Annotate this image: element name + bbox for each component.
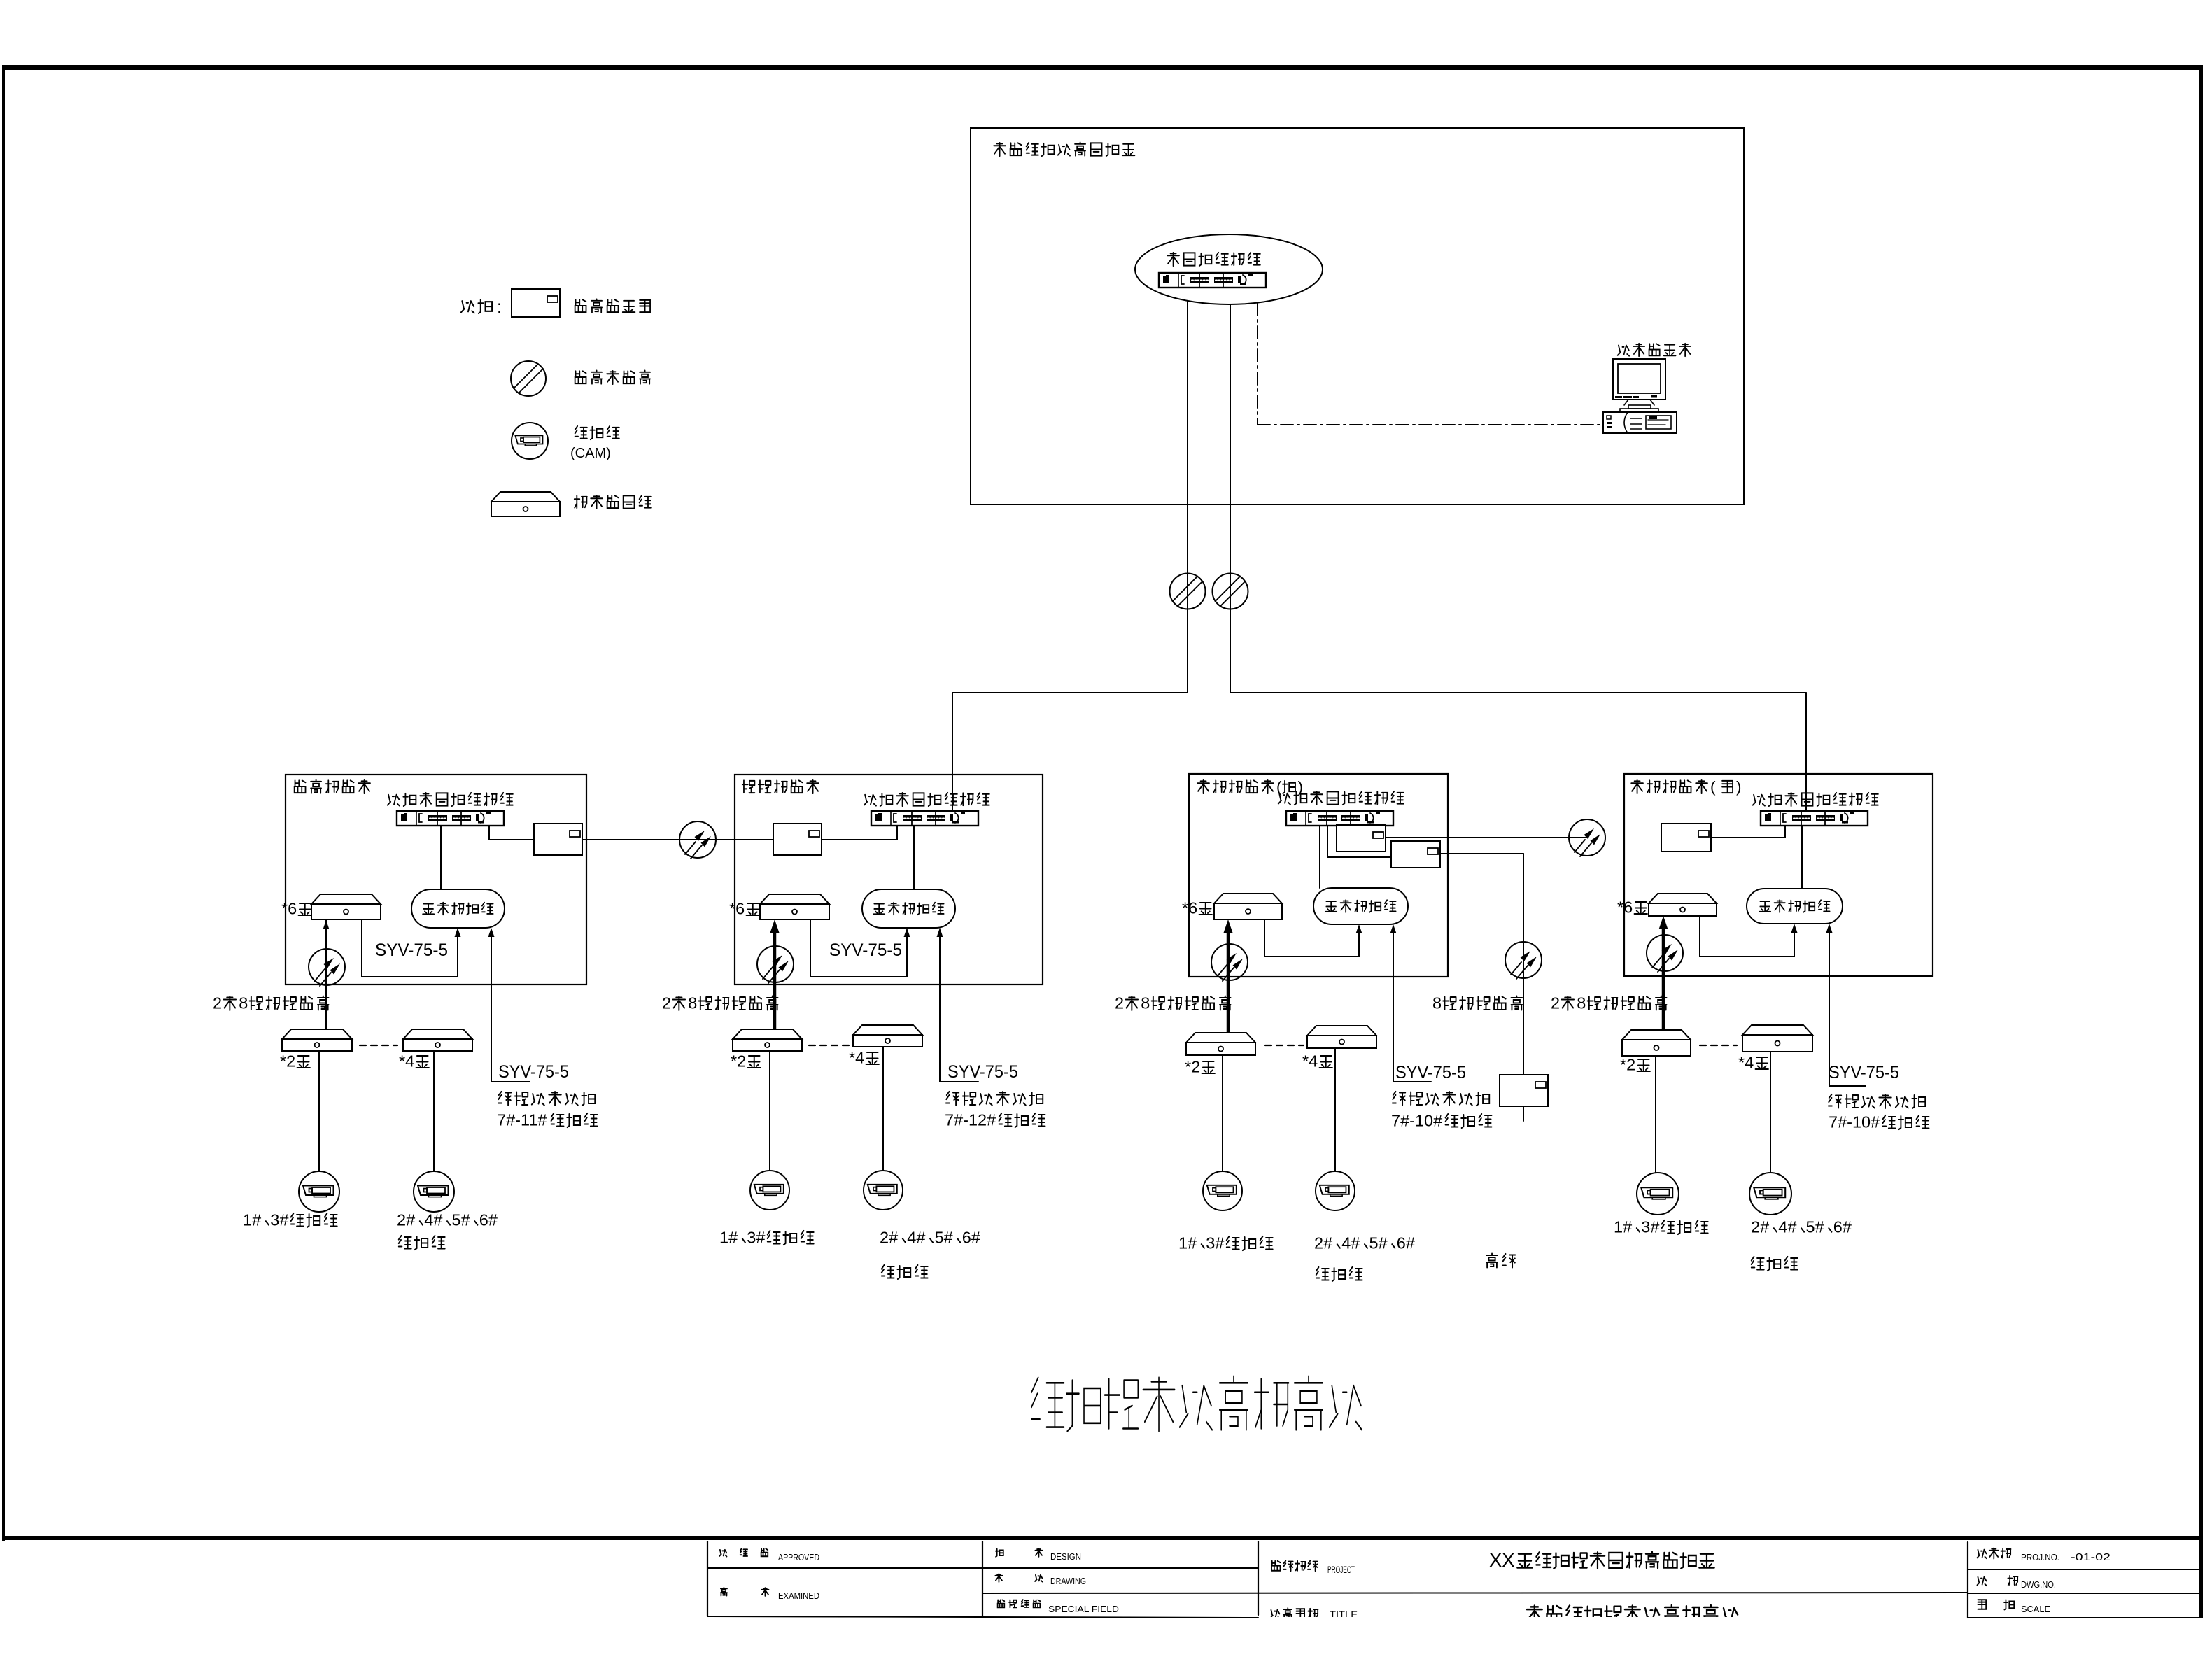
svg-text:-01-02: -01-02: [2071, 1551, 2111, 1563]
svg-text:*4: *4: [1302, 1052, 1318, 1071]
svg-text:5#: 5#: [935, 1229, 953, 1247]
svg-text:SYV-75-5: SYV-75-5: [829, 940, 902, 960]
svg-text:SYV-75-5: SYV-75-5: [498, 1062, 569, 1082]
svg-text:(: (: [1710, 778, 1716, 796]
svg-text:SYV-75-5: SYV-75-5: [1395, 1063, 1466, 1082]
svg-text:1#: 1#: [243, 1211, 261, 1229]
svg-text:4#: 4#: [1341, 1234, 1360, 1252]
svg-text:*2: *2: [280, 1052, 295, 1071]
svg-text::: :: [497, 297, 502, 317]
svg-text:8: 8: [1577, 994, 1586, 1012]
svg-text:): ): [1298, 778, 1304, 796]
svg-text:2: 2: [213, 994, 222, 1012]
svg-text:3#: 3#: [270, 1211, 288, 1229]
svg-text:PROJECT: PROJECT: [1327, 1564, 1355, 1575]
svg-text:PROJ.NO.: PROJ.NO.: [2021, 1552, 2059, 1562]
svg-text:8: 8: [239, 994, 248, 1012]
svg-text:EXAMINED: EXAMINED: [778, 1590, 819, 1601]
svg-text:1#: 1#: [719, 1229, 738, 1247]
svg-text:2#: 2#: [1751, 1218, 1769, 1236]
svg-text:*4: *4: [1738, 1054, 1754, 1072]
svg-text:SYV-75-5: SYV-75-5: [1829, 1063, 1899, 1082]
svg-text:3#: 3#: [1641, 1218, 1659, 1236]
svg-text:2: 2: [1551, 994, 1560, 1012]
svg-text:(CAM): (CAM): [570, 446, 611, 461]
svg-text:): ): [1736, 778, 1742, 796]
svg-text:SCALE: SCALE: [2021, 1604, 2050, 1614]
svg-text:2: 2: [1115, 994, 1124, 1012]
svg-text:5#: 5#: [1369, 1234, 1388, 1252]
svg-text:SPECIAL FIELD: SPECIAL FIELD: [1048, 1604, 1119, 1614]
svg-text:3#: 3#: [747, 1229, 765, 1247]
svg-text:6#: 6#: [962, 1229, 980, 1247]
svg-text:8: 8: [1432, 994, 1442, 1012]
svg-text:*2: *2: [1620, 1056, 1635, 1074]
svg-text:*6: *6: [1617, 898, 1633, 917]
svg-text:4#: 4#: [1778, 1218, 1796, 1236]
svg-text:*4: *4: [849, 1049, 864, 1067]
svg-text:2: 2: [662, 994, 671, 1012]
svg-text:DRAWING: DRAWING: [1050, 1576, 1086, 1586]
svg-text:XX: XX: [1489, 1549, 1515, 1571]
svg-text:1#: 1#: [1178, 1234, 1197, 1252]
svg-text:6#: 6#: [1833, 1218, 1852, 1236]
svg-text:*6: *6: [729, 900, 745, 918]
svg-text:7#-10#: 7#-10#: [1391, 1112, 1442, 1130]
svg-text:*6: *6: [281, 900, 297, 918]
svg-text:3#: 3#: [1206, 1234, 1224, 1252]
svg-text:2#: 2#: [880, 1229, 898, 1247]
svg-text:7#-12#: 7#-12#: [945, 1111, 996, 1129]
svg-text:DWG.NO.: DWG.NO.: [2021, 1579, 2056, 1590]
svg-text:APPROVED: APPROVED: [778, 1552, 819, 1562]
svg-text:4#: 4#: [424, 1211, 442, 1229]
svg-text:8: 8: [688, 994, 697, 1012]
svg-text:7#-10#: 7#-10#: [1829, 1113, 1880, 1131]
svg-text:DESIGN: DESIGN: [1050, 1551, 1081, 1562]
svg-text:6#: 6#: [1397, 1234, 1415, 1252]
svg-text:8: 8: [1141, 994, 1150, 1012]
svg-text:4#: 4#: [907, 1229, 925, 1247]
svg-text:5#: 5#: [452, 1211, 470, 1229]
svg-text:SYV-75-5: SYV-75-5: [375, 940, 448, 960]
svg-text:5#: 5#: [1806, 1218, 1824, 1236]
svg-text:2#: 2#: [1314, 1234, 1332, 1252]
svg-text:7#-11#: 7#-11#: [497, 1111, 547, 1129]
svg-text:*2: *2: [731, 1052, 746, 1071]
svg-text:*6: *6: [1182, 899, 1197, 917]
svg-text:2#: 2#: [397, 1211, 415, 1229]
svg-text:*2: *2: [1185, 1058, 1200, 1076]
svg-text:1#: 1#: [1614, 1218, 1632, 1236]
svg-text:*4: *4: [399, 1052, 414, 1071]
svg-text:SYV-75-5: SYV-75-5: [947, 1062, 1018, 1082]
svg-text:6#: 6#: [479, 1211, 498, 1229]
